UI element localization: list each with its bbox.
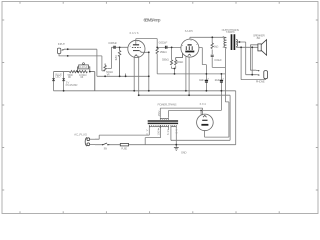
svg-text:20uF: 20uF [215, 78, 220, 82]
svg-text:AC_PLUG: AC_PLUG [74, 133, 88, 137]
power transformer T2 winding G2 [161, 125, 169, 128]
LED D1 [53, 72, 55, 91]
OT primary bottom riser [225, 48, 229, 138]
svg-text:0.005uF: 0.005uF [108, 41, 117, 45]
svg-text:LED: LED [55, 75, 60, 79]
rectifier V3 cathode [201, 124, 208, 126]
rectifier V3 plate [202, 119, 207, 121]
junction (212.3,37.3) [211, 36, 213, 38]
svg-text:0V: 0V [145, 129, 149, 135]
svg-text:0V: 0V [174, 129, 178, 134]
svg-text:T-600/7K: T-600/7K [226, 30, 235, 34]
junction (201.1,110.4) [200, 110, 202, 112]
svg-text:6AR5: 6AR5 [185, 29, 193, 33]
tube V2 filament [188, 54, 191, 55]
power transformer T2 winding G1 [149, 125, 160, 128]
junction (174.5,73.9) [174, 73, 176, 75]
junction (206.4,73.9) [206, 73, 208, 75]
tube V1 filament [134, 55, 137, 57]
junction (239.5,42) [239, 41, 241, 43]
AC plug P1 [87, 138, 90, 141]
tube V2 envelope [181, 39, 199, 57]
heater pins tube1 [134, 56, 139, 95]
resistor R9 1k zobel [211, 43, 213, 49]
svg-text:500kΩ: 500kΩ [162, 58, 170, 62]
tube V1 pin marks [130, 41, 142, 52]
svg-text:SW: SW [104, 146, 108, 150]
wire coupling [157, 46, 180, 48]
switch SW1 [103, 143, 110, 145]
screen wire tube2 [199, 48, 207, 74]
power transformer T2 core [148, 121, 178, 123]
junction (134.2,90.8) [133, 90, 135, 92]
svg-text:0.022uF: 0.022uF [159, 40, 168, 44]
junction (67.7,55.9) [67, 55, 69, 57]
junction (105.1,76.3) [104, 75, 106, 77]
svg-text:6.3V: 6.3V [166, 129, 170, 135]
resistor R7 cathode tube2 [175, 53, 183, 65]
junction (89.8,71.6) [89, 71, 91, 73]
junction (119.6,76.3) [119, 75, 121, 77]
svg-text:VR: VR [107, 73, 110, 77]
junction (252.2,74.7) [251, 74, 253, 76]
resistor R3 [54, 71, 78, 73]
gnd stub [175, 145, 177, 148]
svg-text:GND: GND [181, 151, 187, 155]
wire pot wiper feed [107, 47, 111, 68]
junction (148.8,76.3) [148, 75, 150, 77]
B+ bus [157, 54, 225, 74]
svg-text:500kΩ: 500kΩ [176, 60, 184, 64]
junction (221.4,73.9) [221, 73, 223, 75]
junction (206.4,90.8) [206, 90, 208, 92]
junction (138.7,95.2) [138, 94, 140, 96]
junction (157.2,47.4) [156, 47, 158, 49]
svg-text:FUSE: FUSE [121, 146, 127, 150]
rectifier HV wires [160, 108, 221, 117]
grid leak branch tube2 [172, 47, 176, 74]
svg-text:R4: R4 [81, 75, 84, 79]
AC lower wire [95, 144, 177, 146]
LED D2 [63, 72, 65, 91]
input jack J1 [57, 48, 60, 54]
junction (171.6,47.4) [171, 47, 173, 49]
svg-text:+: + [207, 78, 209, 81]
wire input tip [64, 49, 97, 76]
transformer pin wires [95, 128, 149, 139]
svg-text:+: + [222, 78, 224, 81]
rectifier cathode wire [205, 130, 229, 137]
svg-text:R3: R3 [68, 75, 71, 79]
junction (67.7,49.2) [67, 48, 69, 50]
junction (185.9,90.8) [185, 90, 187, 92]
capacitor C1 0.005uF [114, 46, 115, 49]
tube V1 plate [133, 44, 139, 46]
filter capacitor C6 20uF [220, 80, 223, 82]
svg-text:6X4: 6X4 [200, 102, 207, 106]
plate rail tube2 [190, 37, 226, 39]
ground bus main [54, 91, 236, 145]
junction (221.4,90.8) [221, 90, 223, 92]
node stub [125, 74, 127, 77]
volume pot VR1 500k [104, 64, 106, 71]
filter cap2 leads [220, 74, 222, 111]
svg-text:100V: 100V [157, 129, 161, 136]
junction (77.6,71.6) [77, 71, 79, 73]
tube V1 envelope [128, 40, 145, 57]
zobel branch [212, 37, 225, 67]
tube V2 pin marks [182, 41, 197, 46]
capacitor C3 coupling [166, 46, 167, 49]
tube V1 grid [132, 47, 141, 49]
rectifier V3 filament [203, 115, 207, 117]
resistor R6 500k grid leak [171, 60, 173, 65]
svg-text:6AV6: 6AV6 [130, 31, 139, 35]
OT secondary top to phone ring [236, 42, 256, 75]
tube V2 grids [186, 46, 192, 50]
rectifier V3 envelope [197, 114, 214, 131]
svg-text:250V: 250V [157, 110, 161, 116]
capacitor C4 0.01uF [211, 55, 214, 56]
junction (189.1,95.2) [188, 94, 190, 96]
output transformer T1 primary [224, 38, 227, 48]
power transformer T2 HV winding [160, 117, 168, 120]
phone jack J2 [264, 71, 268, 79]
svg-text:0.47uF: 0.47uF [80, 65, 88, 69]
junction (176.3,144.7) [175, 144, 177, 146]
svg-text:INPUT: INPUT [58, 42, 65, 46]
junction (125.6,76.3) [125, 75, 127, 77]
output transformer T1 secondary [236, 39, 237, 46]
junction (148.8,90.8) [148, 90, 150, 92]
tube V1 cathode [133, 50, 140, 52]
resistor R5 250k plate load [156, 47, 158, 53]
junction (119.6,47.4) [119, 47, 121, 49]
svg-text:PG3528R: PG3528R [66, 83, 78, 87]
junction (252.2,47.3) [251, 46, 253, 48]
speaker top wire to phone tip [250, 45, 258, 70]
wire plate tube1 to node A [136, 39, 157, 48]
film cap C2 box [79, 65, 89, 69]
wire cathode tube1 [140, 51, 149, 91]
svg-text:6BM8 Amp: 6BM8 Amp [144, 17, 161, 22]
svg-text:POWER_TRANS: POWER_TRANS [158, 102, 177, 106]
heater bus B [139, 95, 230, 140]
heater pins tube2 [186, 57, 189, 96]
resistor R4 [78, 71, 88, 73]
wire input sleeve [59, 54, 105, 71]
fuse F1 [120, 144, 128, 146]
junction (148.8,52.3) [148, 51, 150, 53]
junction (63.6,90.8) [63, 90, 65, 92]
speaker bottom drop to ring [251, 47, 253, 74]
tube V2 plate [188, 44, 192, 46]
speaker SP1 [258, 44, 261, 51]
output transformer T1 core [232, 34, 235, 50]
junction (241.1,47.3) [240, 46, 242, 48]
tube V2 cathode [185, 51, 194, 53]
wire grid tube1 [111, 46, 128, 48]
svg-text:1kΩ: 1kΩ [214, 45, 219, 49]
filter cap1 leads [205, 74, 207, 91]
svg-text:0.01uF: 0.01uF [214, 58, 222, 62]
power transformer T2 winding G3 [171, 125, 176, 128]
ground symbol GND [174, 148, 179, 151]
junction (174.5,68.5) [174, 68, 176, 70]
svg-text:10uF: 10uF [199, 78, 204, 82]
svg-text:PHONE: PHONE [256, 80, 265, 84]
ground bus input [97, 75, 149, 77]
svg-text:250kΩ: 250kΩ [160, 50, 168, 54]
OT secondary bottom to speaker and sleeve [236, 47, 265, 79]
resistor R1 1M [118, 47, 120, 76]
svg-text:1MΩ: 1MΩ [114, 55, 118, 61]
filter capacitor C5 10uF [205, 80, 208, 82]
